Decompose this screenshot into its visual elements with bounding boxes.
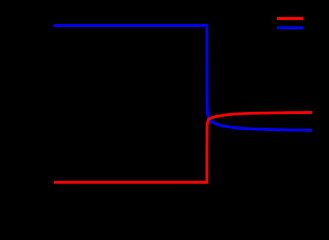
legend blue sample line [277, 26, 303, 29]
blue curve (series 2): flat top, vertical drop at x=206.9, relaxation tail [53, 26, 312, 131]
legend red sample line [277, 17, 303, 20]
red curve (series 1): flat bottom, vertical rise at x=206.9, relaxation tail [54, 112, 312, 182]
